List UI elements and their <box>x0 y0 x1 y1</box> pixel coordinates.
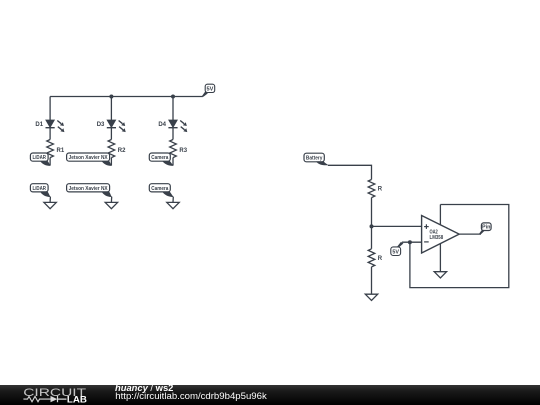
footer bar <box>0 385 540 405</box>
svg-text:LM358: LM358 <box>430 235 444 241</box>
power flag 5V (op-amp - input) <box>391 242 404 256</box>
junction: bus to D4 branch <box>171 95 175 99</box>
wire: D3 cathode to R2 <box>110 128 112 140</box>
LED D3 <box>107 120 126 132</box>
svg-text:Jetson Xavier NX: Jetson Xavier NX <box>69 155 108 161</box>
svg-text:D1: D1 <box>35 122 43 128</box>
wire: bus to D1 anode <box>49 97 51 121</box>
LED D4 <box>168 120 187 132</box>
wire: op-amp bottom power pin <box>439 244 441 272</box>
svg-text:R: R <box>378 256 383 262</box>
resistor R (upper) <box>368 180 375 198</box>
wire: 5V supply bus <box>50 96 203 98</box>
svg-text:R2: R2 <box>118 148 126 154</box>
wire: op-amp output <box>459 233 481 235</box>
resistor R (lower) <box>368 249 375 267</box>
net flag LiDAR (to ground) <box>30 184 50 197</box>
CircuitLab logo <box>0 385 100 405</box>
net flag Camera (at R3) <box>149 153 174 166</box>
svg-text:Battery: Battery <box>306 155 323 161</box>
svg-text:5V: 5V <box>207 86 214 92</box>
ground (Camera) <box>167 202 179 208</box>
resistor R1 <box>47 140 54 158</box>
wire: bus to D3 anode <box>110 97 112 121</box>
svg-text:LiDAR: LiDAR <box>33 155 47 161</box>
net flag Battery <box>304 153 324 162</box>
power flag 5V (top) <box>201 84 214 97</box>
junction: bus to D3 branch <box>109 95 113 99</box>
wire: divider middle <box>371 198 373 249</box>
svg-text:R1: R1 <box>57 148 65 154</box>
LED D1 <box>46 120 65 132</box>
svg-text:R: R <box>378 187 383 193</box>
resistor R3 <box>170 140 177 158</box>
wire: R2 to Jetson Xavier NX flag <box>110 158 112 166</box>
svg-text:R3: R3 <box>179 148 187 154</box>
wire: feedback loop (top pin to - input) <box>410 205 509 288</box>
ground (op-amp) <box>434 272 446 278</box>
net flag Jetson Xavier NX (to ground) <box>67 184 113 197</box>
ground (divider) <box>365 294 377 300</box>
wire: lower R to ground <box>371 267 373 294</box>
net flag LiDAR (at R1) <box>30 153 51 166</box>
resistor R2 <box>108 140 115 158</box>
svg-text:Camera: Camera <box>151 155 169 161</box>
wire: bus to D4 anode <box>172 97 174 121</box>
wire: Jetson Xavier NX flag to ground <box>110 197 112 203</box>
svg-text:LAB: LAB <box>67 393 87 404</box>
svg-text:D3: D3 <box>97 122 105 128</box>
wire: Camera flag to ground <box>172 197 174 203</box>
wire: R1 to LiDAR flag <box>49 158 51 166</box>
op-amp OA2 LM358 <box>422 216 460 254</box>
title and url text <box>115 383 173 392</box>
net flag Jetson Xavier NX (at R2) <box>67 153 113 166</box>
wire: D4 cathode to R3 <box>172 128 174 140</box>
net flag Pin (output) <box>479 223 491 234</box>
junction: - input / feedback node <box>408 240 412 244</box>
wire: LiDAR flag to ground <box>49 197 51 203</box>
wire: Battery flag to divider top <box>328 165 372 179</box>
flag tail: Battery <box>316 161 328 165</box>
svg-text:Camera: Camera <box>151 186 169 192</box>
wire: 5V flag to op-amp - input <box>402 241 422 243</box>
svg-text:Pin: Pin <box>482 225 490 231</box>
svg-text:LiDAR: LiDAR <box>33 186 47 192</box>
ground (LiDAR) <box>44 202 56 208</box>
wire: D1 cathode to R1 <box>49 128 51 140</box>
svg-text:Jetson Xavier NX: Jetson Xavier NX <box>69 186 108 192</box>
wire: divider tap to op-amp + input <box>372 225 422 227</box>
wire: op-amp top power pin <box>439 205 441 225</box>
wire: R3 to Camera flag <box>172 158 174 166</box>
svg-text:D4: D4 <box>158 122 166 128</box>
junction: divider tap <box>370 224 374 228</box>
ground (Jetson Xavier NX) <box>105 202 117 208</box>
net flag Camera (to ground) <box>149 184 173 197</box>
svg-text:5V: 5V <box>392 250 399 256</box>
